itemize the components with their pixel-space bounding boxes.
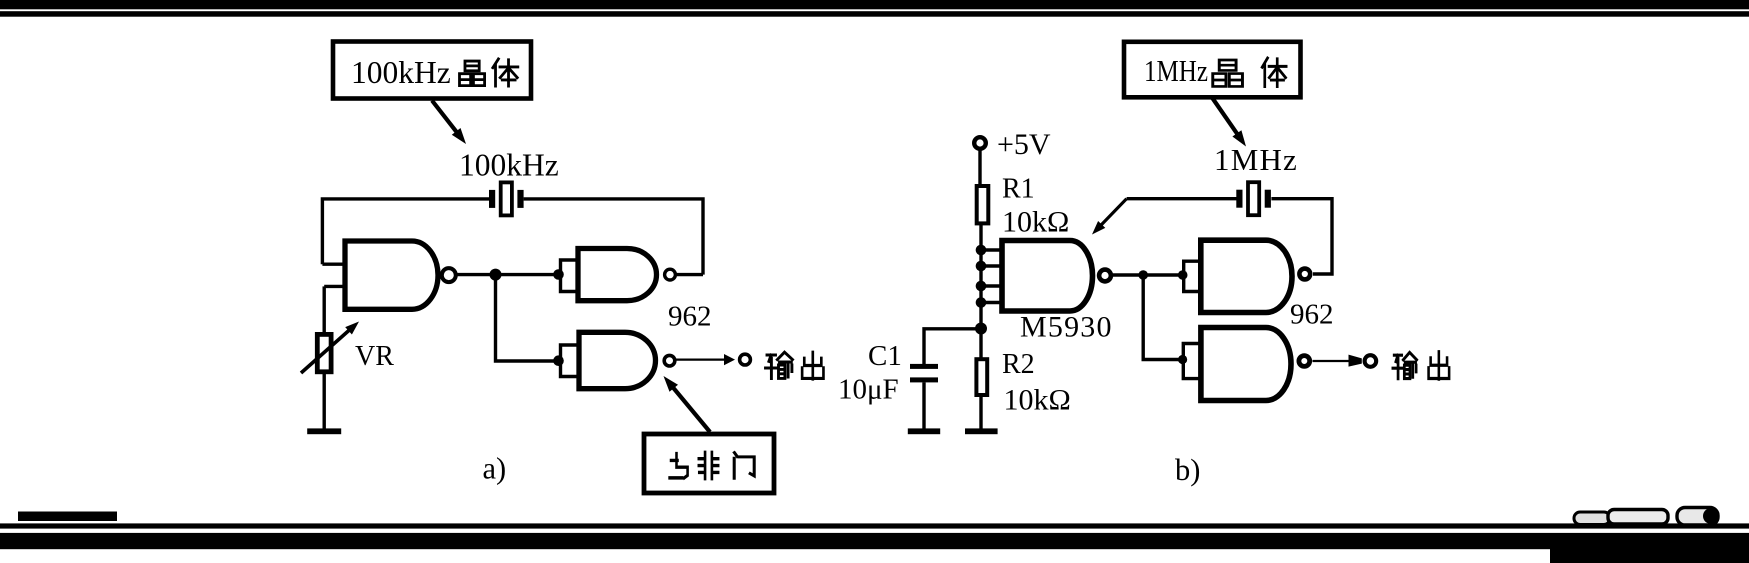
svg-text:10μF: 10μF <box>838 374 899 406</box>
svg-text:100kHz: 100kHz <box>351 55 451 90</box>
svg-text:VR: VR <box>355 341 394 372</box>
svg-text:M5930: M5930 <box>1020 311 1113 344</box>
svg-text:1MHz: 1MHz <box>1144 53 1208 88</box>
svg-text:1MHz: 1MHz <box>1214 142 1298 177</box>
svg-text:962: 962 <box>668 301 712 333</box>
svg-text:C1: C1 <box>868 340 902 372</box>
svg-text:100kHz: 100kHz <box>459 148 559 183</box>
svg-text:a): a) <box>483 452 507 486</box>
svg-text:10kΩ: 10kΩ <box>1004 384 1071 417</box>
svg-text:962: 962 <box>1290 299 1334 331</box>
svg-text:+5V: +5V <box>997 128 1051 161</box>
svg-text:10kΩ: 10kΩ <box>1002 206 1069 239</box>
svg-text:R1: R1 <box>1002 174 1035 205</box>
svg-text:b): b) <box>1175 453 1200 487</box>
svg-text:R2: R2 <box>1002 349 1035 380</box>
